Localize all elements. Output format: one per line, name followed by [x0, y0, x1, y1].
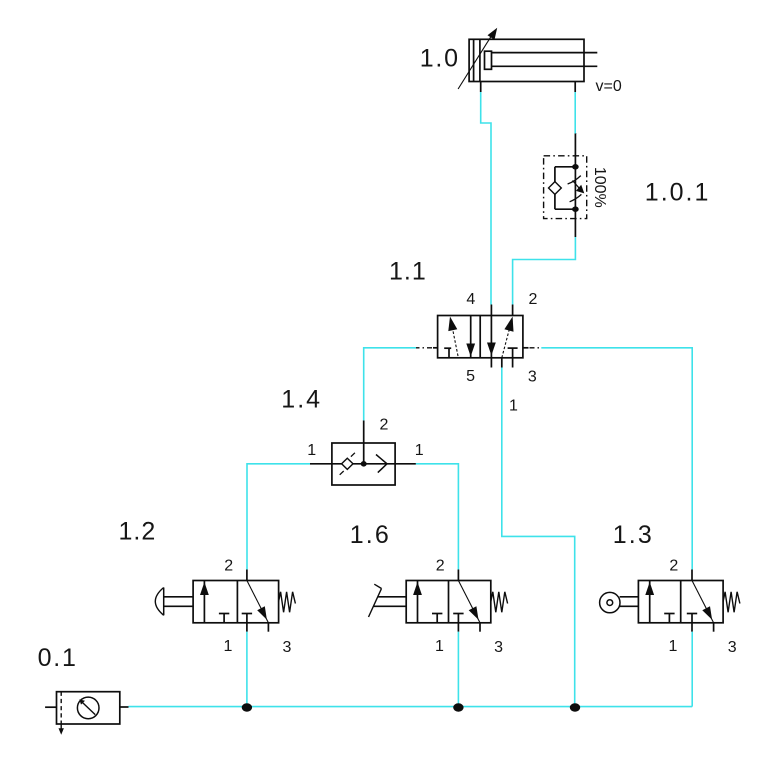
svg-text:1.2: 1.2 [119, 518, 157, 546]
svg-text:1.3: 1.3 [613, 521, 654, 549]
svg-text:1.0: 1.0 [420, 44, 460, 72]
svg-text:1.4: 1.4 [281, 385, 322, 413]
svg-text:1: 1 [435, 638, 444, 655]
svg-text:4: 4 [466, 291, 475, 308]
svg-text:1.1: 1.1 [389, 257, 427, 285]
svg-text:0.1: 0.1 [38, 644, 78, 672]
svg-text:1: 1 [223, 638, 232, 655]
svg-text:1: 1 [415, 442, 424, 459]
svg-text:100%: 100% [591, 167, 608, 208]
svg-text:3: 3 [728, 639, 737, 656]
svg-text:3: 3 [494, 639, 503, 656]
svg-text:5: 5 [466, 368, 475, 385]
svg-text:1: 1 [669, 638, 678, 655]
svg-text:2: 2 [224, 557, 233, 574]
svg-text:v=0: v=0 [596, 78, 622, 95]
svg-text:1: 1 [509, 398, 518, 415]
svg-text:3: 3 [283, 639, 292, 656]
svg-text:1: 1 [307, 442, 316, 459]
svg-text:1.0.1: 1.0.1 [645, 178, 711, 206]
svg-text:2: 2 [436, 557, 445, 574]
svg-text:1.6: 1.6 [350, 521, 391, 549]
svg-text:2: 2 [380, 416, 389, 433]
svg-text:2: 2 [669, 557, 678, 574]
svg-text:2: 2 [529, 291, 538, 308]
svg-text:3: 3 [528, 368, 537, 385]
